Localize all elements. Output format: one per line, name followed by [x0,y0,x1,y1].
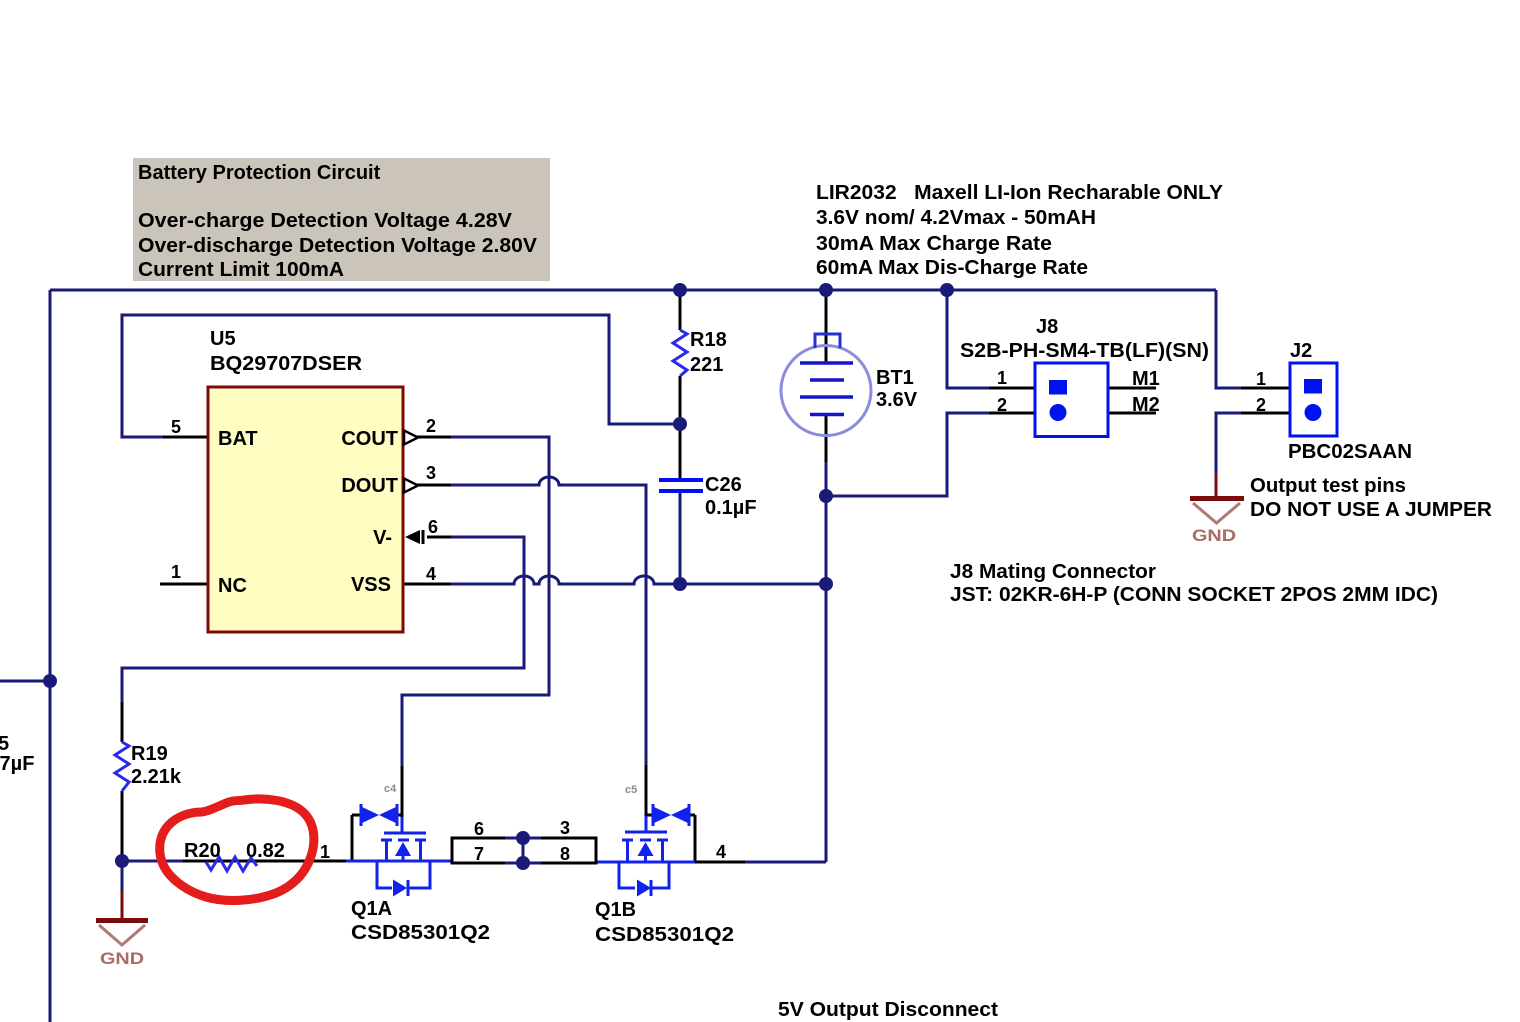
label Q1A refdes [351,898,490,944]
wire: J8 pin2 lead [989,412,1035,415]
note: J8 mating connector info [950,561,1438,606]
pin number J2-2 [1256,395,1266,415]
svg-text:4: 4 [716,842,726,862]
svg-text:J2: J2 [1290,340,1312,362]
svg-text:NC: NC [218,575,247,597]
pin marker V- input triangle [405,530,423,544]
svg-text:Battery Protection Circuit: Battery Protection Circuit [138,162,381,184]
label R20 value [184,840,285,862]
wire: DOUT net to Q1B gate (hop over COUT vertical) [451,477,646,765]
svg-text:BAT: BAT [218,428,258,450]
wire: J8 pin2 net [826,413,989,496]
pin name VSS [351,574,391,596]
wire: COUT net to Q1A gate [402,437,549,766]
svg-text:3.6V nom/ 4.2Vmax - 50mAH: 3.6V nom/ 4.2Vmax - 50mAH [816,207,1096,229]
ground symbol at R19/R20 [96,921,148,969]
wire: left vertical net [0,290,50,1022]
wire: battery to output net [825,462,828,862]
node: rail junction at J8 [940,283,954,297]
svg-text:BT1: BT1 [876,367,914,389]
svg-text:5: 5 [171,417,181,437]
pin name COUT [341,428,398,450]
svg-text:1: 1 [1256,369,1266,389]
svg-text:c4: c4 [384,783,397,795]
svg-text:C26: C26 [705,474,742,496]
wire: top BAT+ rail [50,289,1216,292]
pin mark Q1A gate tiny [384,783,397,795]
svg-text:2: 2 [997,395,1007,415]
wire: U5 BAT pin lead [163,436,208,439]
wire: R19 top lead [121,702,124,742]
wire: J2 pin1 net from rail [1216,290,1241,388]
svg-text:6: 6 [428,517,438,537]
connector J2 [1290,363,1337,436]
wire: J8 M1 stub [1108,387,1156,390]
svg-text:BQ29707DSER: BQ29707DSER [210,353,363,375]
note box: Battery Protection Circuit [133,158,550,281]
svg-text:0.1µF: 0.1µF [705,497,757,519]
node: junction C26/VSS rail [673,577,687,591]
svg-text:30mA Max Charge Rate: 30mA Max Charge Rate [816,233,1052,255]
svg-text:R19: R19 [131,743,168,765]
wire: R20 net from junction [122,860,183,863]
svg-text:CSD85301Q2: CSD85301Q2 [595,924,734,946]
svg-text:2: 2 [1256,395,1266,415]
svg-text:VSS: VSS [351,574,391,596]
svg-text:221: 221 [690,354,723,376]
svg-text:PBC02SAAN: PBC02SAAN [1288,441,1412,463]
pin number 1 (NC) [171,562,181,582]
pin number block 3 [560,818,570,838]
svg-text:R18: R18 [690,329,727,351]
svg-text:CSD85301Q2: CSD85301Q2 [351,922,490,944]
node: left vertical junction [43,674,57,688]
wire: C26 bottom lead [679,492,682,584]
svg-text:V-: V- [373,527,392,549]
svg-text:1: 1 [997,368,1007,388]
svg-text:Current Limit 100mA: Current Limit 100mA [138,259,344,281]
svg-text:Q1B: Q1B [595,899,636,921]
note: 5V Output Disconnect [778,999,998,1021]
transistor Q1A CSD85301Q2 [346,804,452,897]
svg-text:M2: M2 [1132,394,1160,416]
wire: J2 GND stem maroon [1215,473,1218,497]
pin number 5 (BAT) [171,417,181,437]
svg-text:LIR2032 Maxell LI-Ion Rechar: LIR2032 Maxell LI-Ion Recharable ONLY [816,182,1224,204]
capacitor C26 [659,480,703,491]
svg-text:Over-discharge Detection Volta: Over-discharge Detection Voltage 2.80V [138,235,538,257]
resistor R20 [206,857,257,871]
resistor R19 [115,742,129,791]
node: rail junction at R18 [673,283,687,297]
svg-text:3: 3 [426,463,436,483]
net label M2 [1132,394,1160,416]
label C26 value [705,474,757,519]
wire: J2 pin1 lead [1241,387,1291,390]
node: junction R18/C26/BAT loop [673,417,687,431]
wire: U5 DOUT pin lead [417,484,451,487]
wire: U5 BAT loop to R18 bottom [122,315,680,437]
svg-text:3.6V: 3.6V [876,389,918,411]
svg-text:5V Output Disconnect: 5V Output Disconnect [778,999,998,1021]
svg-text:J8: J8 [1036,316,1058,338]
wire: Q1B source to output net [695,861,745,864]
wire: VSS rail with hops [451,576,826,584]
svg-text:DO NOT USE A JUMPER: DO NOT USE A JUMPER [1250,499,1493,521]
svg-text:M1: M1 [1132,368,1160,390]
wire: J8 pin1 net [947,290,989,388]
wire: GND stem maroon [121,891,124,919]
svg-text:1: 1 [320,842,330,862]
svg-text:c5: c5 [625,784,637,796]
wire: junction to GND stem [121,861,124,891]
pin marker DOUT output triangle [404,479,418,493]
label U5 refdes [210,328,363,375]
label J8 part number [960,340,1209,362]
svg-text:Output test pins: Output test pins [1250,475,1406,497]
svg-text:R20: R20 [184,840,221,862]
wire: U5 NC pin lead [160,583,208,586]
wire: R18 bottom lead to C26 [679,376,682,478]
label clipped capacitor left edge [0,733,34,775]
svg-text:1: 1 [171,562,181,582]
wire: U5 VSS pin lead [403,583,451,586]
svg-text:JST: 02KR-6H-P (CONN SOCKET 2P: JST: 02KR-6H-P (CONN SOCKET 2POS 2MM IDC… [950,584,1438,606]
svg-text:S2B-PH-SM4-TB(LF)(SN): S2B-PH-SM4-TB(LF)(SN) [960,340,1209,362]
wire: output net to battery vertical [745,861,826,864]
net label M1 [1132,368,1160,390]
label J8 refdes [1036,316,1058,338]
label R18 value [690,329,727,376]
label J2 part number [1288,441,1412,463]
svg-text:7: 7 [474,844,484,864]
svg-text:3: 3 [560,818,570,838]
transistor Q1B CSD85301Q2 [596,804,695,897]
svg-text:4: 4 [426,564,436,584]
wire: J2 pin2 lead [1241,412,1291,415]
wire: battery top lead [825,290,828,363]
wire: Q1B gate lead [645,765,648,816]
wire: U5 V- pin lead [427,536,451,539]
pin number 2 (COUT) [426,416,436,436]
wire: V- net to R19 [122,537,524,702]
annotation: red marker circle around R20 [160,799,314,901]
svg-text:COUT: COUT [341,428,398,450]
svg-text:0.82: 0.82 [246,840,285,862]
connector J8 [1035,363,1108,437]
pin number J2-1 [1256,369,1266,389]
svg-text:6: 6 [474,819,484,839]
resistor R18 [673,330,687,376]
wire: R18 top lead [679,290,682,330]
pin number 6 (V-) [428,517,438,537]
node: BT1/J8 pin2 junction [819,489,833,503]
wire: J8 pin1 lead [989,387,1035,390]
pin number 4 (VSS) [426,564,436,584]
svg-text:5: 5 [0,733,9,755]
svg-text:60mA Max Dis-Charge Rate: 60mA Max Dis-Charge Rate [816,257,1088,279]
node: BT1/VSS rail junction [819,577,833,591]
pin number R20-1 [320,842,330,862]
label Q1B refdes [595,899,734,946]
pin marker COUT output triangle [404,431,418,445]
label R19 value [131,743,182,788]
label J2 refdes [1290,340,1312,362]
svg-text:GND: GND [1192,526,1236,545]
pin number block 6 [474,819,484,839]
svg-text:2.21k: 2.21k [131,766,182,788]
svg-text:DOUT: DOUT [341,475,398,497]
wire: R19 bottom lead [121,791,124,861]
svg-text:2: 2 [426,416,436,436]
pin name DOUT [341,475,398,497]
wire: Q1A gate lead [401,766,404,817]
pin name BAT [218,428,258,450]
wire: J2 pin2 net to GND [1216,413,1241,473]
node: rail junction at BT1 [819,283,833,297]
pin name V- [373,527,392,549]
ground symbol at J2 [1190,499,1244,546]
wire: J8 M2 stub [1108,412,1156,415]
label BT1 value [876,367,918,411]
battery BT1 [781,334,871,436]
svg-text:.7µF: .7µF [0,753,34,775]
pin mark Q1B gate tiny [625,784,637,796]
common pin block pins 6/7/3/8 [452,831,596,870]
wire: R20 leads [183,860,346,863]
svg-text:Q1A: Q1A [351,898,392,920]
wire: battery bottom lead [825,415,828,462]
pin number 3 (DOUT) [426,463,436,483]
note: LIR2032 battery info [816,182,1224,279]
pin number block 7 [474,844,484,864]
note: output test pins [1250,475,1493,521]
pin number Q1B-4 [716,842,726,862]
wire: U5 COUT pin lead [417,436,451,439]
svg-text:U5: U5 [210,328,236,350]
pin number J8-1 [997,368,1007,388]
op-amp U5 BQ29707DSER body [208,387,403,632]
pin name NC [218,575,247,597]
node: R19/R20/GND junction [115,854,129,868]
svg-text:Over-charge Detection Voltage: Over-charge Detection Voltage 4.28V [138,210,513,232]
pin number J8-2 [997,395,1007,415]
svg-text:GND: GND [100,949,144,968]
pin number block 8 [560,844,570,864]
svg-text:8: 8 [560,844,570,864]
svg-text:J8 Mating Connector: J8 Mating Connector [950,561,1156,583]
